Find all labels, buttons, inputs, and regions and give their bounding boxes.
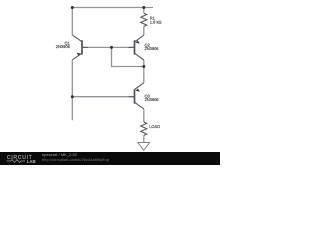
svg-text:2N3906: 2N3906 xyxy=(145,46,160,51)
svg-text:2N3906: 2N3906 xyxy=(145,97,160,102)
svg-text:http;//circuitlab.com/c/26c44a: http;//circuitlab.com/c/26c44af/flipflop xyxy=(42,157,109,162)
svg-text:1.8 kΩ: 1.8 kΩ xyxy=(150,19,162,24)
svg-text:LOAD: LOAD xyxy=(149,124,160,129)
svg-text:2N3906: 2N3906 xyxy=(56,44,71,49)
svg-text:LAB: LAB xyxy=(27,159,36,164)
